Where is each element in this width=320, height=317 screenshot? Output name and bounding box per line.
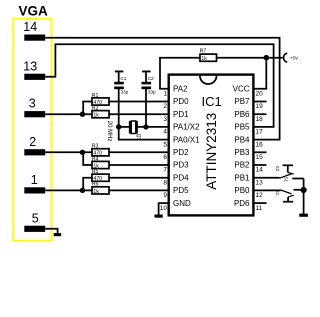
VGA pin 3 pad <box>24 111 45 117</box>
connector X1 VGA frame <box>13 19 51 241</box>
svg-text:PB7: PB7 <box>234 97 250 106</box>
svg-text:PD3: PD3 <box>173 161 189 170</box>
switch S1 contact stub <box>287 197 289 202</box>
VGA pin 1 pad <box>24 187 45 193</box>
wire R6 to PD5 <box>109 189 169 191</box>
wire PA2 to R7 <box>160 58 200 89</box>
svg-text:13: 13 <box>256 179 264 186</box>
node junction X2 <box>143 124 148 129</box>
svg-text:PD5: PD5 <box>173 186 189 195</box>
capacitor C1 ground bar <box>115 71 124 73</box>
svg-text:20 MHz: 20 MHz <box>106 121 112 142</box>
svg-text:10: 10 <box>160 205 168 212</box>
VGA pin 14 pad <box>24 35 45 41</box>
svg-text:S1: S1 <box>275 190 280 196</box>
svg-text:5: 5 <box>163 141 167 148</box>
wire jog down to R4 <box>83 152 92 165</box>
VGA pin 5 pad <box>24 226 45 232</box>
resistor R2 <box>92 111 109 118</box>
wire VGA2 to R3 and PD2 <box>45 151 92 153</box>
svg-text:C2: C2 <box>148 76 154 81</box>
svg-text:20: 20 <box>256 91 264 98</box>
svg-text:PB6: PB6 <box>234 110 250 119</box>
svg-text:1: 1 <box>163 91 167 98</box>
ground symbol at IC1 <box>155 215 163 218</box>
wire C1 to crystal node X1 <box>118 89 120 127</box>
wire R4 to PD3 <box>109 164 169 166</box>
svg-text:PD4: PD4 <box>173 173 189 182</box>
wire S2 to common <box>292 178 303 180</box>
wire R7 to +5V <box>217 57 283 59</box>
wire PB1 pin13 to switch S2 <box>253 177 279 179</box>
svg-text:3: 3 <box>163 116 167 123</box>
svg-text:C1: C1 <box>120 76 126 81</box>
svg-text:4: 4 <box>163 129 167 136</box>
wire switch common to ground <box>303 179 305 214</box>
svg-text:9: 9 <box>163 192 167 199</box>
svg-text:PB3: PB3 <box>234 148 250 157</box>
wire jog up to R1 <box>83 102 92 115</box>
pin stub PB2 <box>253 164 266 166</box>
wire C2 to crystal node X2 <box>145 89 147 127</box>
crystal Q1 right plate <box>136 121 138 134</box>
capacitor C2 ground bar <box>142 71 151 73</box>
supply symbol +5V <box>284 53 288 62</box>
svg-text:S1: S1 <box>283 177 288 183</box>
ground symbol at switches <box>299 214 308 217</box>
capacitor C2 plates <box>142 82 152 85</box>
wire gnd to C1 <box>118 72 120 82</box>
wire PB0 pin12 to switch S1 <box>253 189 280 191</box>
wire R2 to PD1 <box>109 113 169 115</box>
svg-text:PD1: PD1 <box>173 110 189 119</box>
svg-text:14: 14 <box>23 20 37 34</box>
node junction X1 <box>116 124 121 129</box>
svg-text:33p: 33p <box>148 90 156 95</box>
switch S1 contact bend <box>288 195 294 197</box>
wire R5 to PD4 <box>109 177 169 179</box>
wire VGA3 to R2 and PD1 <box>45 113 92 115</box>
wire VGA14 to PB4 pin16 <box>45 38 279 140</box>
wire crystal to node X1 <box>119 126 130 128</box>
svg-text:5: 5 <box>32 211 39 225</box>
svg-text:PD0: PD0 <box>173 97 189 106</box>
svg-text:PB0: PB0 <box>234 186 250 195</box>
node junction VGA3 <box>80 112 85 117</box>
wire VGA1 to R6 and PD5 <box>45 189 92 191</box>
svg-text:1k: 1k <box>93 189 99 195</box>
VGA pin 13 pad <box>24 74 45 80</box>
svg-text:3: 3 <box>29 97 36 111</box>
switch S2 contact bend <box>288 172 294 174</box>
wire S1 to common <box>294 189 304 191</box>
node junction switch common <box>301 187 307 193</box>
svg-text:VCC: VCC <box>233 85 250 94</box>
svg-text:PA0/X1: PA0/X1 <box>173 135 200 144</box>
node junction VGA1 <box>80 188 85 193</box>
resistor R1 <box>92 98 109 105</box>
ground symbol at VGA5 <box>54 233 62 236</box>
wire VGA13 to PB5 pin17 <box>45 44 273 127</box>
crystal Q1 left plate <box>129 121 131 134</box>
svg-text:6: 6 <box>163 154 167 161</box>
IC1 notch <box>200 76 217 84</box>
svg-text:17: 17 <box>256 129 264 136</box>
svg-text:PD6: PD6 <box>234 199 250 208</box>
svg-text:19: 19 <box>256 103 264 110</box>
resistor R7 <box>200 54 217 61</box>
svg-text:8: 8 <box>163 179 167 186</box>
wire junction to VCC pin20 <box>253 58 266 89</box>
IC IC1 ATTINY2313 body <box>169 75 254 216</box>
svg-text:16: 16 <box>256 141 264 148</box>
VGA pin 2 pad <box>24 149 45 155</box>
wire jog up to R5 <box>83 178 92 191</box>
wire GND pin10 to ground <box>159 203 169 215</box>
resistor R5 <box>92 174 109 181</box>
svg-text:IC1: IC1 <box>202 94 222 109</box>
switch S1 contact bar <box>283 201 293 203</box>
svg-text:PB2: PB2 <box>234 161 250 170</box>
svg-text:PB5: PB5 <box>234 123 250 132</box>
svg-text:12: 12 <box>256 192 264 199</box>
svg-text:GND: GND <box>173 199 191 208</box>
wire R3 to PD2 <box>109 151 169 153</box>
svg-text:15: 15 <box>256 154 264 161</box>
wire VGA5 to ground <box>45 229 57 233</box>
svg-text:2: 2 <box>29 135 36 149</box>
wire gnd to C2 <box>145 72 147 82</box>
svg-text:2: 2 <box>163 103 167 110</box>
switch S2 lever <box>280 174 293 179</box>
crystal Q1 body <box>131 121 136 134</box>
svg-text:S2: S2 <box>275 166 280 172</box>
svg-text:11: 11 <box>256 205 263 212</box>
capacitor C1 plates <box>114 82 124 85</box>
switch S2 contact stub <box>287 165 289 172</box>
pin stub PB3 <box>253 151 266 153</box>
pin stub PB7 <box>253 101 266 103</box>
svg-text:33p: 33p <box>121 90 129 95</box>
svg-text:1k: 1k <box>201 56 207 62</box>
svg-text:7: 7 <box>163 167 167 174</box>
pin stub PB6 <box>253 113 266 115</box>
switch S2 contact bar <box>283 164 294 166</box>
pin stub PD6 <box>253 202 266 204</box>
svg-text:PB4: PB4 <box>234 135 250 144</box>
node junction +5V/VCC <box>264 55 270 61</box>
svg-text:PB1: PB1 <box>234 173 250 182</box>
svg-text:PD2: PD2 <box>173 148 189 157</box>
wire X1 node to PA0/X1 pin5 <box>119 127 169 140</box>
svg-text:VGA: VGA <box>19 3 49 18</box>
switch S1 lever <box>281 190 292 194</box>
svg-text:1: 1 <box>31 173 38 187</box>
resistor R3 <box>92 149 109 156</box>
resistor R4 <box>92 161 109 168</box>
svg-text:13: 13 <box>23 59 37 73</box>
resistor R6 <box>92 187 109 194</box>
wire R1 to PD0 <box>109 101 169 103</box>
svg-text:PA1/X2: PA1/X2 <box>173 123 200 132</box>
svg-text:14: 14 <box>256 167 264 174</box>
svg-text:1k: 1k <box>93 113 99 119</box>
svg-text:PA2: PA2 <box>173 85 188 94</box>
svg-text:18: 18 <box>256 116 264 123</box>
svg-text:+5V: +5V <box>290 56 299 61</box>
node junction VGA2 <box>80 150 85 155</box>
wire PA1/X2 pin4 to crystal <box>137 126 169 128</box>
svg-text:ATTINY2313: ATTINY2313 <box>204 113 219 190</box>
